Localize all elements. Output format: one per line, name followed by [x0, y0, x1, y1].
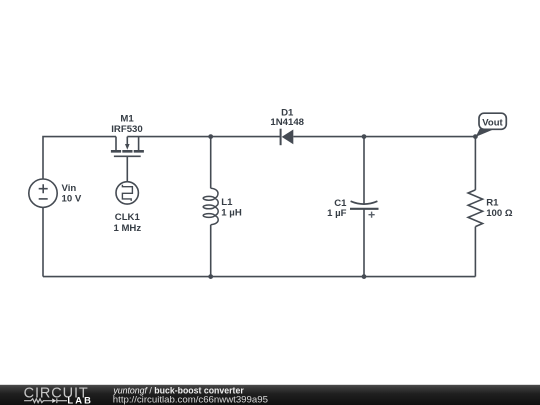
- svg-text:IRF530: IRF530: [111, 124, 142, 135]
- wire Vout node down to R1: [474, 137, 476, 190]
- svg-text:M1: M1: [120, 113, 134, 124]
- junction node L1 top: [208, 134, 213, 139]
- resistor R1: [468, 190, 483, 227]
- CircuitLab logo doodle resistor zigzag and diode: [24, 398, 67, 403]
- label L1 1uH: [221, 197, 242, 218]
- bottom rail wire: [43, 276, 475, 278]
- wire Vin bottom to bottom rail: [42, 207, 44, 276]
- label C1 1uF: [327, 198, 347, 219]
- junction node L1 bottom: [208, 274, 213, 279]
- wire D1 anode to Vout node: [293, 136, 475, 138]
- svg-text:LAB: LAB: [67, 395, 93, 405]
- voltage source Vin: [29, 179, 57, 207]
- svg-text:1 MHz: 1 MHz: [113, 223, 141, 234]
- svg-text:1N4148: 1N4148: [270, 117, 304, 128]
- svg-text:Vout: Vout: [482, 118, 503, 129]
- wire M1 source to D1 cathode: [127, 136, 280, 138]
- inductor L1: [203, 188, 218, 225]
- svg-text:CLK1: CLK1: [115, 212, 141, 223]
- svg-text:1 µH: 1 µH: [221, 207, 242, 218]
- transistor M1 (NMOS): [111, 137, 144, 182]
- clock source CLK1: [116, 182, 138, 204]
- Vout flag pointer: [476, 129, 493, 137]
- wire C1 top branch: [363, 137, 365, 204]
- svg-text:Vin: Vin: [62, 183, 77, 194]
- svg-text:R1: R1: [486, 198, 499, 209]
- junction node C1 bottom: [362, 274, 367, 279]
- junction node Vout: [473, 134, 478, 139]
- wire R1 bottom to bottom rail: [474, 227, 476, 277]
- wire C1 bottom branch: [363, 209, 365, 277]
- label D1 1N4148: [270, 107, 304, 128]
- label Vin value: [62, 183, 82, 205]
- label R1 100ohm: [486, 198, 513, 220]
- Vout flag box: [479, 113, 506, 129]
- wire M1 gate to CLK1: [126, 156, 128, 181]
- wire L1 bottom branch: [210, 225, 212, 277]
- footer bar: [0, 385, 540, 405]
- diode D1: [281, 129, 294, 146]
- label CLK1 1 MHz: [113, 212, 141, 234]
- svg-text:1 µF: 1 µF: [327, 208, 347, 219]
- label M1 IRF530: [111, 113, 142, 135]
- svg-text:100 Ω: 100 Ω: [486, 208, 513, 219]
- svg-text:10 V: 10 V: [62, 194, 82, 205]
- junction node C1 top: [362, 134, 367, 139]
- wire Vin top to M1 drain: [43, 137, 116, 180]
- capacitor C1 (polarized): [350, 201, 379, 218]
- svg-text:http://circuitlab.com/c66nwwt3: http://circuitlab.com/c66nwwt399a95: [113, 394, 268, 405]
- wire L1 top branch: [210, 137, 212, 189]
